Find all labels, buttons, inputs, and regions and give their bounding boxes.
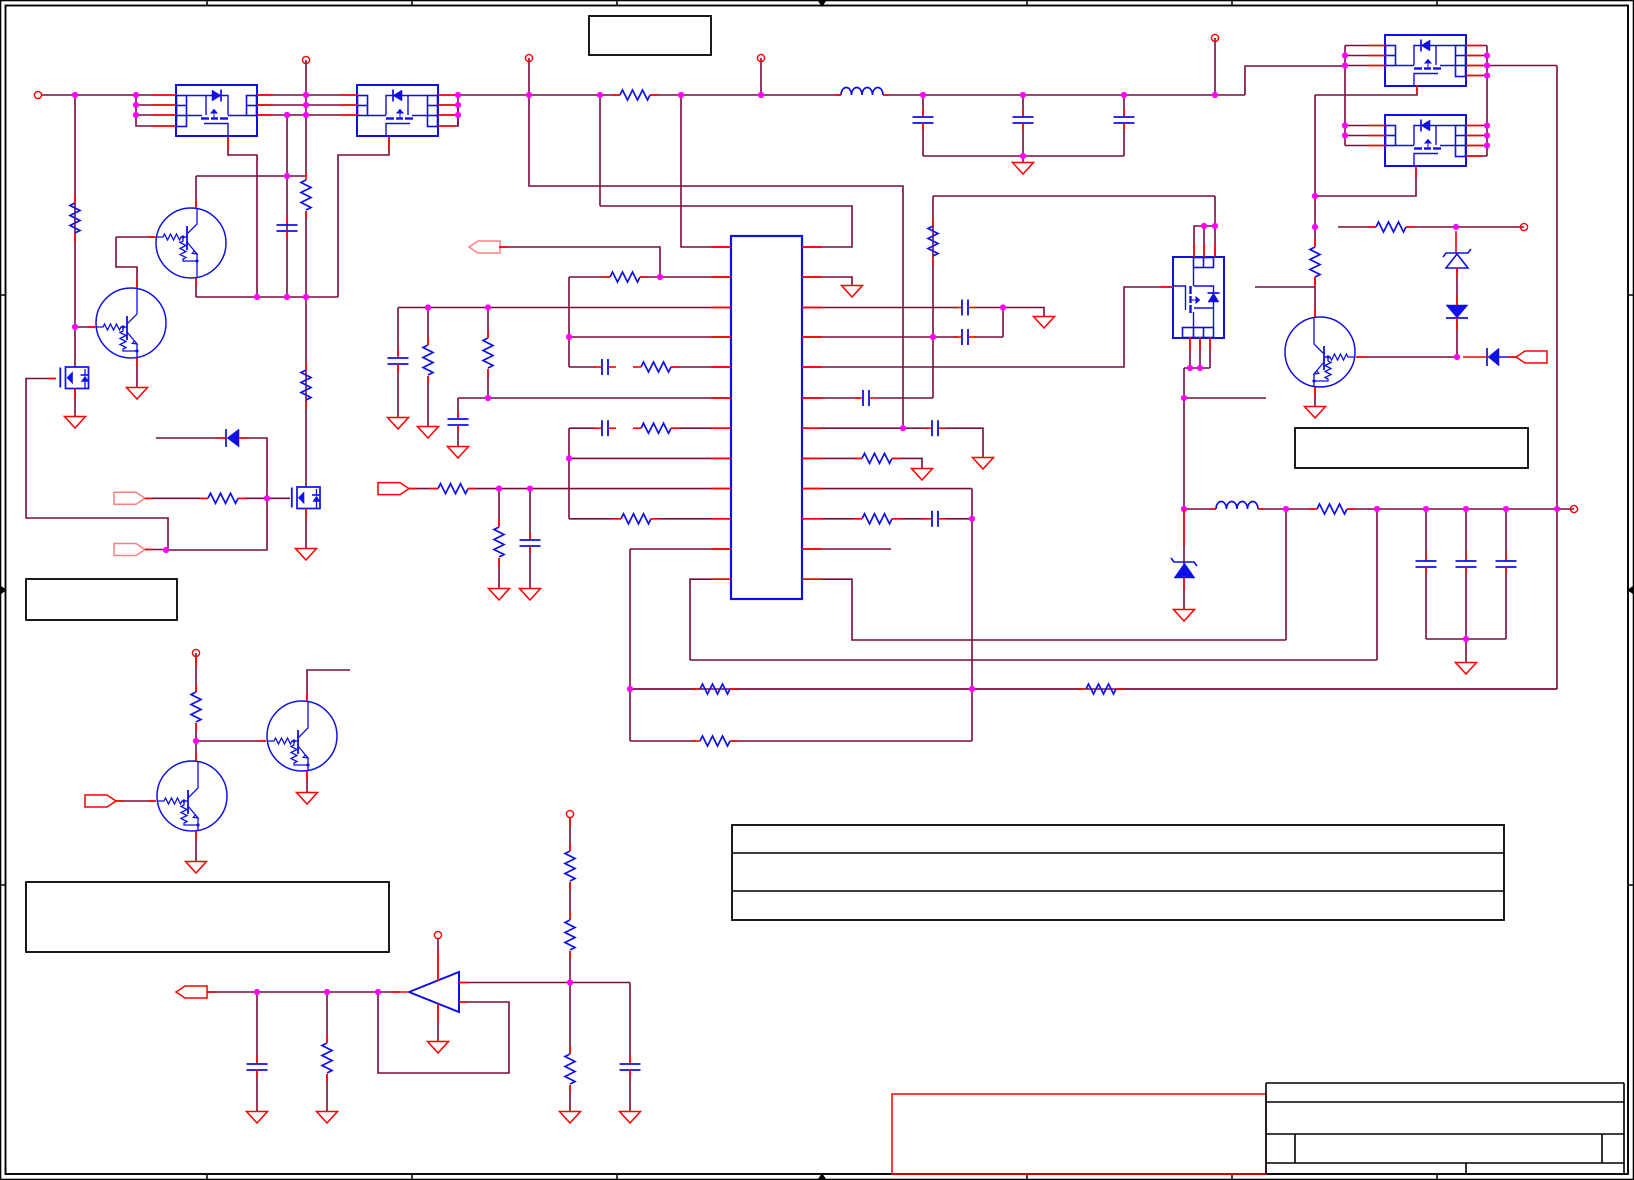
junction VIN/R1 [72, 92, 78, 98]
wire emitter rail [196, 296, 338, 298]
wire U9 source tab [1315, 166, 1416, 196]
junction sense A [627, 686, 633, 692]
wire U8 in1 [1345, 45, 1386, 47]
title block [1266, 1083, 1624, 1174]
junction P2/row3 [303, 112, 309, 118]
capacitor C12 [1496, 560, 1517, 562]
junction feedback A [1283, 506, 1289, 512]
capacitor C11 [1456, 560, 1477, 562]
terminal P3 [525, 54, 532, 61]
junction R20 row [1312, 224, 1318, 230]
junction Q2 base [72, 324, 78, 330]
wire R13 to ground [498, 558, 500, 588]
wire R8 to ground [427, 376, 429, 426]
resistor R4 [301, 370, 311, 400]
wire pin2-pin5 chain [568, 277, 570, 367]
wire pinR11 stub [802, 548, 891, 550]
junction R8 [425, 304, 431, 310]
terminal P10 [434, 931, 441, 938]
junction [1187, 365, 1193, 371]
wire capacitor C3 bottom [1022, 123, 1024, 156]
inductor L1 [841, 88, 883, 96]
wire R20 left [1338, 226, 1376, 228]
wire pin10 left [569, 518, 621, 520]
wire Q1 base [116, 236, 156, 238]
wire D6 to node [1456, 318, 1458, 357]
resistor R2 [191, 692, 201, 722]
junction U2 out1 [455, 92, 461, 98]
capacitor C7 [448, 418, 469, 420]
wire D1 to gate loop [166, 438, 267, 550]
wire R5 to L1 [650, 94, 841, 96]
junction R13 [496, 486, 502, 492]
wire R14 to pin10 [651, 518, 731, 520]
wire R10 to pin5 [671, 366, 731, 368]
wire Q4 collector stub [307, 670, 350, 701]
wire left bus right modules [1344, 46, 1346, 146]
junction emitter rail [303, 294, 309, 300]
transistor [267, 701, 337, 771]
junction R16 net [930, 334, 936, 340]
wire capacitor C12 top [1505, 509, 1507, 561]
junction U7 top [1212, 223, 1218, 229]
junction C11 [1463, 506, 1469, 512]
wire U1-U2 row2 [257, 104, 358, 106]
junction C12 [1503, 506, 1509, 512]
wire R12 to pin9 [468, 488, 731, 490]
junction pin8 [566, 455, 572, 461]
wire to output rail [1487, 65, 1557, 67]
mosfet module U9 (bottom right) [1385, 115, 1466, 166]
wire R9 top [487, 308, 489, 339]
ground pinR2 [842, 286, 863, 298]
junction right bus [1484, 72, 1490, 78]
wire R8 top [427, 308, 429, 346]
wire R28 to ground [569, 1085, 571, 1111]
junction cap rail out [1463, 636, 1469, 642]
wire Q1 base to Q2 collector [116, 237, 137, 288]
junction P2/row1 [303, 92, 309, 98]
resistor R7 [610, 272, 640, 282]
junction pin2 [657, 274, 663, 280]
wire C9 top [529, 489, 531, 540]
wire pin11 drop [629, 549, 631, 741]
wire R21 to Q3 [1314, 277, 1316, 317]
diode D7 [1486, 348, 1488, 366]
wire capacitor C2 top [922, 95, 924, 117]
wire U6 feedback loop [378, 992, 509, 1073]
wire Q1 to R3 node [196, 175, 306, 177]
resistor R26 [565, 851, 575, 881]
junction terminal P4 [758, 92, 764, 98]
wire U1 pin2 [136, 104, 176, 106]
capacitor C13 [961, 300, 963, 316]
wire to ground [1022, 156, 1024, 162]
port SD [114, 544, 145, 556]
capacitor C19 [247, 1063, 268, 1065]
ground R17 [912, 469, 933, 481]
junction [1342, 122, 1348, 128]
transistor Q3 digital [1285, 317, 1355, 387]
resistor R9 [483, 338, 493, 368]
wire pinR6 [802, 397, 859, 399]
ground C13 [1034, 317, 1055, 329]
wire pinR2 to ground [802, 277, 852, 285]
ground C7 [448, 447, 469, 459]
wire pinR12 to feedback A [802, 579, 1286, 640]
wire Q4 emitter [306, 771, 308, 792]
wire R1 chain [74, 95, 76, 367]
wire Q3 collector feed [1314, 95, 1316, 247]
wire R3 chain down [305, 211, 307, 487]
capacitor C15 [862, 390, 864, 406]
wire C19 to ground [256, 1070, 258, 1111]
capacitor C17 [931, 511, 933, 527]
wire sense low left [630, 740, 696, 742]
wire sense low right [730, 740, 972, 742]
resistor R20 [1376, 222, 1406, 232]
wire capacitor C12 bottom [1505, 567, 1507, 639]
wire CTL to Q5 base [116, 800, 156, 802]
wire P2 net down [305, 115, 307, 176]
wire pin12 to feedback B [690, 659, 1377, 661]
junction [1342, 52, 1348, 58]
wire P5 drop [1214, 38, 1216, 95]
junction pinR7 [900, 425, 906, 431]
junction P2/row2 [303, 102, 309, 108]
capacitor C18 [620, 1063, 641, 1065]
terminal P2 [302, 56, 309, 63]
wire pinR7 [802, 427, 928, 429]
resistor R6 [208, 493, 238, 503]
wire Q1 collector [195, 176, 197, 208]
wire R22 to VOUT [1347, 508, 1574, 510]
wire U9 out1 [1466, 125, 1487, 127]
wire U1-U2 row1 [257, 94, 358, 96]
wire capacitor C2 bottom [922, 123, 924, 156]
junction Q4 base net [193, 738, 199, 744]
wire pin12 [690, 579, 731, 660]
terminal P1 VIN [34, 91, 41, 98]
wire feedback A drop [1285, 509, 1287, 640]
resistor R27 [565, 920, 575, 950]
wire VCC B drop [599, 95, 601, 206]
wire R17 to ground [892, 458, 922, 468]
ground Q7 [65, 417, 86, 429]
wire U9 in2 [1345, 135, 1386, 137]
wire FB to R12 [409, 488, 438, 490]
ground output caps [1456, 663, 1477, 675]
diode D1 [156, 437, 226, 439]
junction U1 pin1 [133, 92, 139, 98]
junction C19 [254, 989, 260, 995]
wire pinR9 [802, 488, 972, 490]
transistor [156, 208, 226, 278]
resistor R28 [565, 1054, 575, 1084]
wire stub to Q3 line [1255, 286, 1315, 288]
wire capacitor C10 top [1425, 509, 1427, 561]
wire Q2 base [75, 326, 96, 328]
transistor [96, 288, 166, 358]
wire R6 to Q6 gate [238, 497, 290, 499]
wire capacitor C4 top [1123, 95, 1125, 117]
capacitor C5 [388, 357, 409, 359]
resistor R29 [322, 1043, 332, 1073]
wire to Q4 base [196, 740, 266, 742]
wire U1-U2 row3 [257, 114, 358, 116]
wire R2 to Q5 [195, 723, 197, 761]
wire C19 top [256, 992, 258, 1064]
junction cap rail [1020, 153, 1026, 159]
wire U2 right jog [438, 105, 458, 126]
ground C18 [620, 1112, 641, 1124]
wire R13 top [498, 489, 500, 527]
junction [1342, 132, 1348, 138]
capacitor C8 [601, 420, 603, 436]
wire U6 to ground [437, 1004, 439, 1041]
mosfet [292, 487, 321, 509]
junction C2 [920, 92, 926, 98]
wire C15 to R16 [877, 397, 933, 399]
terminal P9 [566, 810, 573, 817]
ground U6 [428, 1042, 449, 1054]
wire U9 out4 [1466, 155, 1487, 157]
junction R9 [485, 304, 491, 310]
junction C13/C14 [1000, 304, 1006, 310]
wire into U7 pin3 [1214, 196, 1216, 257]
resistor R25 [1086, 684, 1116, 694]
wire C1 chain [286, 115, 288, 297]
resistor R3 [301, 180, 311, 210]
resistor R21 [1310, 247, 1320, 277]
resistor R18 [862, 514, 892, 524]
wire pin2 left [569, 276, 610, 278]
port VREF out [176, 986, 207, 998]
wire output rail down [1556, 66, 1558, 690]
wire D7 to port [1499, 356, 1516, 358]
mosfet module U8 (top right) [1385, 35, 1466, 86]
wire U2 out bus [457, 95, 459, 126]
junction VCC A [526, 92, 532, 98]
label box bottom-left [26, 882, 389, 952]
junction R29 [324, 989, 330, 995]
border zone ticks left [0, 294, 6, 296]
junction C9 [527, 486, 533, 492]
wire stub right [1184, 397, 1266, 399]
wire P2 drop [305, 60, 307, 115]
junction R9/pin6 [485, 395, 491, 401]
wire C7 top [457, 398, 459, 419]
wire U7 source pins [1189, 337, 1191, 368]
resistor R1 [70, 203, 80, 233]
ground R8 [418, 427, 439, 439]
wire pinR4 [802, 336, 958, 338]
wire capacitor C10 bottom [1425, 567, 1427, 639]
border zone ticks top [206, 0, 208, 6]
junction right bus [1484, 122, 1490, 128]
junction D5 [1453, 224, 1459, 230]
wire U2 source tab [338, 137, 389, 297]
wire U8 out1 [1466, 45, 1487, 47]
resistor R11 [641, 423, 671, 433]
junction right bus [1484, 142, 1490, 148]
ground R29 [317, 1112, 338, 1124]
wire D4 to ground [1183, 578, 1185, 609]
label box right [1295, 428, 1528, 468]
terminal P5 [1211, 34, 1218, 41]
wire R29 top [326, 992, 328, 1043]
label box top [589, 16, 711, 55]
zener diode D5 [1455, 231, 1457, 253]
wire R16 chain [932, 196, 934, 398]
wire buffer + input [459, 982, 630, 984]
junction U1 tab [254, 294, 260, 300]
junction pin4 [566, 334, 572, 340]
ground D4 [1174, 610, 1195, 622]
wire sense left [630, 688, 696, 690]
mosfet [60, 367, 89, 389]
wire U8 in2 [1345, 55, 1386, 57]
resistor R10 [641, 362, 671, 372]
wire R16 top to P5 drop [933, 195, 1215, 197]
wire U1 source tab [228, 137, 257, 297]
wire VIN to U1 [42, 94, 176, 96]
junction Q3 base net [1454, 354, 1460, 360]
junction Q6 gate [264, 495, 270, 501]
wire R9 bottom [487, 369, 489, 398]
wire C13-C14 join [1002, 308, 1004, 338]
port EN [469, 241, 500, 253]
wire cap ground rail [923, 155, 1124, 157]
junction VOUT rail [1554, 506, 1560, 512]
notes table [732, 825, 1504, 920]
capacitor C14 [961, 329, 963, 345]
capacitor C2 [913, 116, 934, 118]
wire EN to R7 node [499, 247, 660, 277]
port CTL [85, 795, 116, 807]
junction C1 top [284, 173, 290, 179]
wire U9 out2 [1466, 135, 1487, 137]
wire SD in [145, 549, 166, 551]
inductor L2 [1216, 502, 1258, 510]
capacitor C3 [1013, 116, 1034, 118]
terminal P6 [1520, 223, 1527, 230]
wire pinR9 drop [971, 489, 973, 741]
wire pinR3 [802, 307, 958, 309]
ground Q5 [186, 862, 207, 874]
wire D5-D6 [1456, 268, 1458, 305]
transistor [157, 761, 227, 831]
wire R27 to node [569, 951, 571, 1054]
wire Q1 emitter [195, 278, 197, 297]
terminal P8 [192, 649, 199, 656]
junction U1 pin3 [133, 112, 139, 118]
junction right bus [1484, 52, 1490, 58]
wire Q2 emitter [136, 358, 138, 387]
junction right bus [1484, 132, 1490, 138]
wire L1 to right modules [883, 94, 1245, 96]
IC U5 controller [731, 236, 802, 599]
junction stub [1181, 395, 1187, 401]
wire to ground [1465, 639, 1467, 662]
junction U2 out3 [455, 112, 461, 118]
wire feedback bottom [630, 688, 1557, 690]
wire Q5 emitter [195, 831, 197, 861]
port DRV [114, 492, 145, 504]
wire U9 out3 [1466, 145, 1487, 147]
capacitor C9 [520, 539, 541, 541]
junction row3/C1 [284, 112, 290, 118]
wire U1 pin4 jog [136, 95, 176, 126]
wire U8 out2 [1466, 55, 1487, 57]
junction C3 [1020, 92, 1026, 98]
wire pin8 [569, 457, 731, 459]
wire U5 pin1 [681, 95, 731, 247]
wire C5 to ground [397, 364, 399, 417]
terminal P4 [757, 54, 764, 61]
wire feed right modules [1245, 66, 1345, 95]
wire capacitor C4 bottom [1123, 123, 1125, 156]
resistor R14 [621, 514, 651, 524]
ground R13 [489, 589, 510, 601]
wire P8 to R2 [195, 653, 197, 692]
junction C1 bottom [284, 294, 290, 300]
border zone ticks bottom [206, 1174, 208, 1180]
wire Q6 source [305, 509, 307, 549]
wire capacitor C11 top [1465, 509, 1467, 561]
ground cap rail [1013, 163, 1034, 175]
wire C9 to ground [529, 546, 531, 588]
wire C18 drop [629, 983, 631, 1065]
diode D6 [1446, 305, 1468, 318]
border centering marks [818, 1, 826, 7]
wire R18 to C17 [892, 518, 928, 520]
ground Q6 [296, 549, 317, 561]
wire VREF line [207, 991, 400, 993]
junction ref divider [567, 979, 573, 985]
wire Q6 drain [306, 486, 308, 488]
wire Q3 emitter [1314, 387, 1316, 407]
ground Q4 [297, 793, 318, 805]
wire C5 drop [397, 308, 399, 357]
wire pin7 left [569, 427, 596, 429]
border zone ticks right [1628, 294, 1634, 296]
mosfet module U1 [176, 85, 257, 136]
wire pin7-pin10 chain [568, 428, 570, 519]
wire capacitor C11 bottom [1465, 567, 1467, 639]
junction [1342, 62, 1348, 68]
ground Q2 [127, 388, 148, 400]
mosfet module U7 [1173, 257, 1224, 338]
wire U2 to R5 [438, 94, 620, 96]
wire Q7 source [74, 389, 76, 417]
wire VCC A to pinR7 net [529, 95, 903, 428]
resistor R5 series [620, 90, 650, 100]
wire L2 to R22 [1258, 508, 1317, 510]
wire P4 drop [760, 58, 762, 95]
wire pin11 [630, 548, 731, 550]
junction feedback [375, 989, 381, 995]
junction feedback B [1374, 506, 1380, 512]
op-amp U6 buffer [409, 972, 459, 1012]
wire U9 in1 [1345, 125, 1386, 127]
wire P9 down [569, 818, 571, 851]
wire U8 in3 [1345, 65, 1386, 67]
wire R11 to pin7 [671, 427, 731, 429]
wire output cap rail [1426, 638, 1506, 640]
wire U7 source down [1183, 368, 1185, 566]
ground Q3 [1305, 407, 1326, 419]
